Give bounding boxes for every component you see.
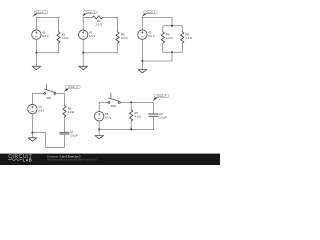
svg-text:1.0 µF: 1.0 µF	[159, 115, 167, 119]
svg-text:V1: V1	[42, 30, 46, 34]
svg-text:1.0 Ω: 1.0 Ω	[62, 36, 69, 40]
svg-text:C2: C2	[159, 112, 163, 116]
wire parallel bottom bar c3	[163, 51, 183, 53]
voltage source V2	[79, 30, 88, 39]
wire left rail c5 upper	[98, 102, 100, 111]
junction c1	[35, 52, 37, 54]
wire left rail c1 lower	[35, 39, 37, 52]
label C1 1.0 uF	[70, 130, 78, 138]
wire bottom c3	[142, 60, 172, 62]
resistor R6	[63, 106, 66, 117]
wire C2 stub lower c5	[152, 116, 154, 129]
label R3 2.0 ohm	[121, 33, 128, 41]
label V1 5.0 V	[42, 30, 48, 38]
wire left rail c4 lower	[31, 114, 33, 133]
voltage source V3	[138, 30, 147, 39]
wire R7 stub lower c5	[130, 121, 132, 129]
capacitor C1	[60, 132, 69, 134]
wire left branch stub lower c3	[162, 43, 164, 52]
svg-text:Circuit_2: Circuit_2	[86, 11, 96, 14]
wire right rail c1 lower	[58, 43, 60, 53]
svg-text:V3: V3	[148, 30, 152, 34]
node tag Circuit_5	[153, 94, 169, 101]
junction c3 bottom bar	[171, 51, 173, 53]
ground c1	[32, 53, 41, 70]
svg-text:LAB: LAB	[23, 158, 33, 163]
svg-text:2.0 Ω: 2.0 Ω	[186, 36, 193, 40]
resistor R3	[116, 32, 119, 43]
svg-text:5.0 V: 5.0 V	[148, 34, 154, 38]
voltage source V4	[28, 104, 37, 113]
wire bottom c2	[83, 52, 117, 54]
wire bottom jog c4	[32, 133, 64, 148]
svg-text:R5: R5	[186, 33, 190, 37]
label R2 2.0 ohm	[95, 19, 102, 27]
resistor R7	[130, 110, 133, 121]
svg-text:4.0 Ω: 4.0 Ω	[68, 110, 75, 114]
wire bottom c1	[36, 52, 58, 54]
wire parallel top bar c3	[163, 25, 183, 27]
wire top-left c5	[99, 101, 108, 103]
wire left rail c2 lower	[82, 39, 84, 52]
wire right rail c2 lower	[117, 43, 119, 53]
svg-text:1.0 µF: 1.0 µF	[70, 134, 78, 138]
wire top-right c2	[103, 16, 118, 18]
svg-text:R2: R2	[97, 19, 101, 23]
svg-text:V4: V4	[38, 105, 42, 109]
svg-text:2.0 Ω: 2.0 Ω	[121, 36, 128, 40]
wire left rail c3 lower	[141, 39, 143, 61]
wire right rail c1 upper	[58, 17, 60, 31]
svg-text:5.0 V: 5.0 V	[105, 116, 111, 120]
svg-text:5.0 V: 5.0 V	[38, 108, 44, 112]
voltage source V1	[32, 30, 41, 39]
svg-text:5.0 V: 5.0 V	[42, 34, 48, 38]
wire top-right c4	[56, 93, 65, 105]
wire drop from bar to bottom c3	[171, 52, 173, 61]
node tag Circuit_3	[142, 11, 157, 17]
label V4 5.0 V	[38, 105, 44, 113]
wire right rail c4 middle	[63, 117, 65, 132]
label R4 2.0 ohm	[166, 33, 173, 41]
voltage source V5	[95, 112, 104, 121]
junction c5 bottom R7	[130, 128, 132, 130]
footer bar	[0, 154, 220, 165]
svg-text:C1: C1	[70, 130, 74, 134]
svg-text:R7: R7	[135, 111, 139, 115]
label C2 1.0 uF	[159, 112, 167, 120]
node tag Circuit_2	[82, 11, 97, 17]
switch SW2	[108, 93, 120, 103]
svg-text:Circuit_1: Circuit_1	[36, 11, 46, 14]
svg-text:2.0 Ω: 2.0 Ω	[95, 23, 102, 27]
svg-text:SW1: SW1	[46, 97, 52, 100]
resistor R1	[57, 32, 60, 43]
node tag Circuit_4	[64, 85, 80, 92]
node tag Circuit_1	[33, 11, 48, 17]
wire top-left c4	[32, 92, 43, 94]
wire R7 stub upper c5	[130, 102, 132, 110]
wire top-left c2	[83, 16, 92, 18]
wire left branch stub upper c3	[162, 26, 164, 32]
svg-text:Circuit_3: Circuit_3	[146, 11, 156, 14]
label V2 5.0 V	[89, 30, 95, 38]
label R5 2.0 ohm	[186, 33, 193, 41]
junction c2	[82, 52, 84, 54]
wire right branch stub upper c3	[181, 26, 183, 32]
svg-text:R6: R6	[68, 107, 72, 111]
wire top-right c5	[120, 102, 153, 114]
svg-text:R4: R4	[166, 33, 170, 37]
svg-text:R1: R1	[62, 33, 66, 37]
label R6 4.0 ohm	[68, 107, 75, 115]
logo resistor squiggle	[8, 159, 21, 161]
label V3 5.0 V	[148, 30, 154, 38]
wire left rail c5 lower	[98, 121, 100, 129]
resistor R4	[161, 32, 164, 43]
wire top c1	[36, 16, 58, 18]
wire left rail c3 upper	[141, 17, 143, 30]
junction c3 bottom-left	[141, 60, 143, 62]
svg-text:Circuit_5: Circuit_5	[157, 95, 167, 98]
svg-text:5.0 V: 5.0 V	[89, 34, 95, 38]
label R7 4.0 ohm	[135, 111, 142, 119]
junction c5 top	[130, 101, 132, 103]
wire left rail c4 upper	[31, 93, 33, 104]
ground c5	[95, 129, 104, 139]
junction c3 top	[171, 25, 173, 27]
junction c4	[31, 132, 33, 134]
wire right rail c2 upper	[117, 17, 119, 31]
resistor R5	[181, 32, 184, 43]
wire right branch stub lower c3	[181, 43, 183, 52]
svg-text:SW2: SW2	[111, 105, 117, 108]
resistor R2	[93, 16, 103, 19]
wire left rail c2 upper	[82, 17, 84, 30]
svg-text:R3: R3	[121, 33, 125, 37]
svg-text:V5: V5	[105, 112, 109, 116]
svg-text:2.0 Ω: 2.0 Ω	[166, 36, 173, 40]
ground c2	[79, 53, 88, 70]
svg-text:Circuit_4: Circuit_4	[68, 86, 78, 89]
label V5 5.0 V	[105, 112, 111, 120]
junction c5 bottom-left	[98, 128, 100, 130]
wire top c3	[142, 17, 172, 25]
capacitor C2	[149, 114, 158, 116]
svg-text:http://circuitlab.com/c/smab63: http://circuitlab.com/c/smab63/lab-6-exe…	[47, 159, 97, 162]
ground c3	[138, 61, 147, 73]
svg-text:4.0 Ω: 4.0 Ω	[135, 114, 142, 118]
ground c4	[28, 133, 37, 142]
label R1 1.0 ohm	[62, 33, 69, 41]
wire left rail c1 upper	[35, 17, 37, 30]
wire bottom c5	[99, 128, 153, 130]
switch SW1	[44, 84, 56, 94]
svg-text:V2: V2	[89, 30, 93, 34]
